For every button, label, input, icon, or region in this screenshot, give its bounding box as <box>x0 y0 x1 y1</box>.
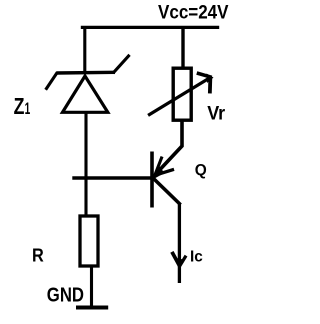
svg-text:R: R <box>32 245 44 266</box>
svg-text:Vcc=24V: Vcc=24V <box>158 1 229 23</box>
transistor Q <box>152 152 179 208</box>
svg-text:Vr: Vr <box>207 103 225 124</box>
wire Vcc rail <box>81 26 219 29</box>
wire Vr to transistor Q emitter <box>156 122 182 175</box>
wire base node to transistor Q base <box>74 176 151 179</box>
svg-text:Z: Z <box>14 93 25 119</box>
variable resistor Vr <box>150 68 214 120</box>
resistor R <box>80 216 98 266</box>
svg-text:Ic: Ic <box>190 249 203 266</box>
wire zener anode to resistor R <box>84 112 87 215</box>
svg-text:Q: Q <box>195 162 207 179</box>
wire rail to zener Z1 cathode <box>83 27 86 73</box>
wire rail to variable resistor Vr <box>181 29 184 67</box>
wire collector to output <box>178 203 181 283</box>
label Z1 <box>14 93 31 119</box>
ground <box>76 306 108 310</box>
svg-text:1: 1 <box>25 99 31 118</box>
zener diode Z1 <box>47 56 129 112</box>
current arrow Ic <box>173 254 185 268</box>
wire resistor R to ground <box>90 267 93 306</box>
svg-text:GND: GND <box>47 284 84 306</box>
